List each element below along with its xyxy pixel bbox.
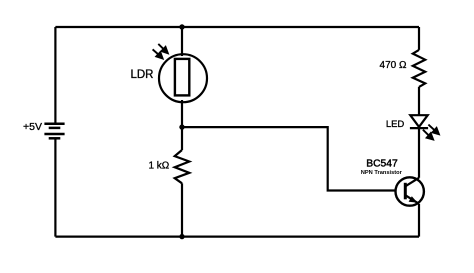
LED emission arrow 2 [423,130,433,140]
svg-text:1 kΩ: 1 kΩ [148,160,169,171]
transistor emitter stroke [405,195,419,204]
wire left rail upper (battery + to top rail) [54,27,56,124]
wire LDR branch top (top rail to LDR) [181,27,183,56]
transistor base bar [404,183,407,200]
svg-text:BC547: BC547 [366,158,398,169]
transistor emitter arrowhead [409,196,418,202]
wire right branch top (top rail to 470 resistor) [418,27,420,50]
junction node at LDR / 1k / base wire [179,124,184,129]
LDR light arrow 2 [153,49,163,58]
wire bottom rail [55,236,419,238]
junction node at bottom rail / LDR branch [179,234,184,239]
wire LED to transistor collector [418,128,420,178]
svg-text:NPN Transistor: NPN Transistor [361,170,403,176]
LED emission arrow 1 [428,125,439,135]
transistor Q1 BC547 [396,177,424,205]
wire transistor emitter to bottom rail [418,204,420,237]
LDR light arrow 1 [158,44,168,53]
wire 470 resistor to LED [418,87,420,115]
LED D1 [410,115,428,128]
resistor R1 1 kOhm [175,150,190,183]
wire base link (node to transistor base) [182,127,396,190]
photoresistor LDR [159,54,207,102]
resistor R2 470 Ohm [413,50,425,87]
transistor collector stroke [405,178,419,187]
wire LDR branch bottom (1k resistor to bottom rail) [181,183,183,236]
svg-text:LED: LED [386,119,405,130]
svg-text:+5V: +5V [23,121,42,133]
junction node at top rail / LDR [179,24,184,29]
svg-text:LDR: LDR [130,69,153,81]
wire LDR branch middle (LDR to 1k resistor) [181,100,183,150]
svg-text:470 Ω: 470 Ω [380,60,407,71]
battery V1 +5V [44,124,64,139]
wire top rail [55,26,419,28]
wire left rail lower (battery - to bottom rail) [54,138,56,236]
